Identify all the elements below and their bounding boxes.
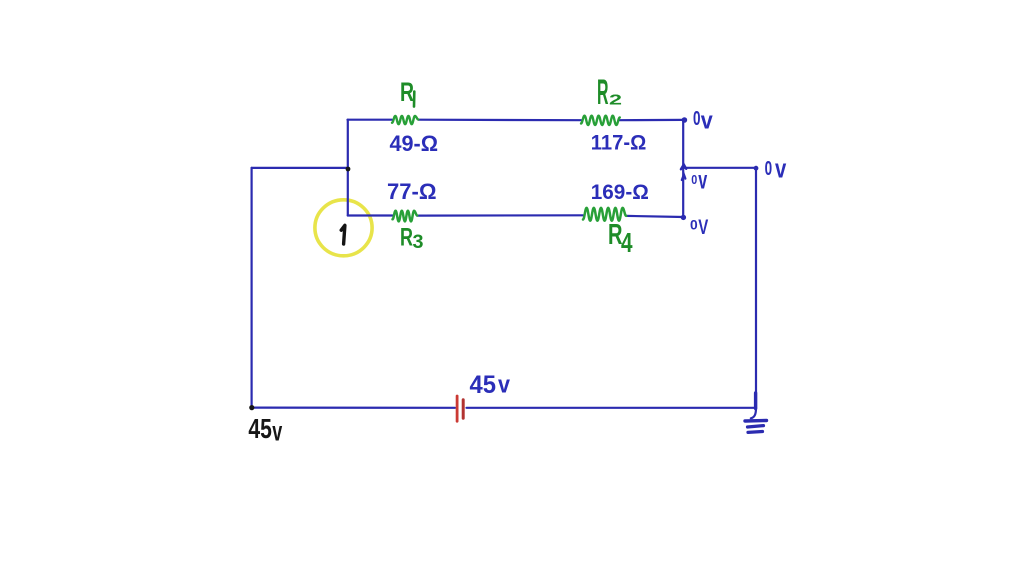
battery plate long: [456, 396, 459, 421]
resistor R4 squiggle: [583, 208, 626, 221]
svg-text:0: 0: [693, 108, 701, 130]
label R2: [597, 73, 622, 112]
svg-text:117-Ω: 117-Ω: [591, 132, 647, 155]
wire middle right horizontal: [684, 167, 756, 169]
node voltage 45v black: [248, 413, 282, 447]
wire bottom branch left segment: [348, 214, 393, 216]
junction dot bottom left corner: [249, 405, 254, 410]
wire inner left vertical: [347, 120, 349, 216]
svg-text:0: 0: [690, 216, 698, 232]
wire stub horizontal: [252, 167, 348, 169]
wire bottom left segment: [252, 407, 455, 409]
svg-text:R: R: [597, 73, 609, 112]
svg-text:4: 4: [621, 227, 633, 258]
label R1: [400, 77, 414, 107]
svg-text:0: 0: [765, 158, 773, 180]
svg-text:v: v: [498, 372, 511, 399]
ground stem overdraw: [754, 393, 757, 409]
ground bar 2: [748, 426, 764, 427]
battery V1 45v: [457, 396, 463, 421]
node voltage 0v far right: [765, 154, 787, 184]
wire bottom right segment: [467, 407, 757, 409]
svg-text:v: v: [775, 154, 786, 184]
wire outer right hook: [751, 408, 756, 418]
svg-text:77-Ω: 77-Ω: [387, 179, 437, 204]
node voltage 0v top right: [693, 108, 713, 135]
svg-text:R: R: [400, 224, 413, 252]
svg-text:v: v: [698, 164, 707, 194]
junction dot inner top right: [682, 117, 688, 123]
wire top branch right segment: [620, 119, 684, 121]
svg-text:R: R: [400, 77, 414, 107]
node 1 highlight circle: [315, 200, 372, 256]
junction dot outer right corner: [754, 166, 759, 171]
wire top branch middle segment: [419, 119, 582, 122]
svg-text:2: 2: [609, 92, 622, 109]
battery value 45v blue: [470, 371, 511, 399]
svg-text:45: 45: [470, 371, 497, 399]
resistor R1 squiggle: [392, 116, 418, 124]
svg-text:169-Ω: 169-Ω: [591, 181, 649, 204]
wire bottom branch middle segment: [417, 214, 583, 217]
wire outer right vertical: [755, 168, 757, 408]
resistor R2 squiggle: [581, 116, 620, 125]
svg-text:v: v: [272, 416, 282, 447]
label R3: [400, 224, 424, 254]
node voltage 0v middle inner: [691, 164, 707, 194]
resistor R3 squiggle: [393, 211, 418, 222]
current arrow chevron below junction: [682, 174, 686, 180]
junction dot node A (left): [346, 167, 351, 172]
junction caret at middle right: [681, 165, 686, 170]
svg-text:v: v: [701, 108, 714, 135]
svg-text:3: 3: [413, 232, 424, 253]
ground bar 3: [748, 430, 763, 434]
svg-text:45: 45: [248, 413, 272, 444]
battery plate short: [462, 400, 465, 419]
svg-text:V: V: [698, 216, 708, 239]
wire bottom branch right segment: [627, 216, 684, 217]
label R4: [608, 219, 633, 258]
ground symbol: [745, 393, 767, 432]
junction dot inner bottom right: [681, 215, 686, 220]
node voltage 0V bottom: [690, 216, 708, 239]
current label 1 in circle: [341, 225, 345, 244]
svg-text:49-Ω: 49-Ω: [390, 131, 439, 156]
wire top branch left segment: [348, 119, 393, 121]
wire outer left vertical: [251, 168, 253, 408]
wire inner right vertical: [682, 120, 684, 217]
ground bar 1: [745, 419, 767, 423]
svg-text:0: 0: [691, 172, 697, 187]
